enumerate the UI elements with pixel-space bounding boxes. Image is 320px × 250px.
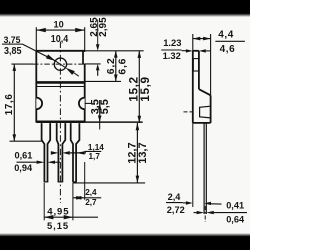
lead 2 left edge: [57, 123, 59, 182]
extension line: lead shoulder end, left: [10, 140, 42, 142]
lead 2 tip cap: [58, 181, 62, 183]
dimension 6,2/6,6: dim line: [115, 51, 117, 82]
svg-text:10,4: 10,4: [51, 34, 69, 44]
svg-text:1,14: 1,14: [88, 143, 104, 152]
side view: tab top edge: [193, 50, 199, 52]
front view: tab right edge notch segment: [82, 51, 84, 64]
svg-text:10: 10: [53, 19, 63, 29]
lead 3 left edge: [71, 123, 73, 182]
svg-text:1.23: 1.23: [163, 37, 181, 48]
svg-text:2,7: 2,7: [85, 198, 97, 207]
front view: body bottom thick edge: [36, 121, 84, 124]
extension line: tab top edge extended right: [85, 50, 144, 52]
side view: recess centerline dashes: [184, 111, 193, 113]
svg-text:0,61: 0,61: [15, 151, 33, 161]
top black bar: [0, 0, 250, 17]
extension lines below outer lead left edges: [43, 183, 45, 220]
side view: tab front edge: [198, 51, 200, 89]
dimension 4,4/4,6: dim line: [193, 38, 211, 40]
svg-text:2,4: 2,4: [85, 188, 97, 197]
arrowhead left at lead1 right edge, with tail: [48, 161, 56, 164]
side view: body bottom edge: [193, 122, 211, 124]
svg-text:4,4: 4,4: [218, 29, 234, 40]
arrowhead at hole lower-right: [66, 68, 75, 75]
svg-text:3,85: 3,85: [4, 45, 22, 56]
lead 3 right edge: [76, 123, 79, 182]
side view: body front edge: [210, 95, 212, 123]
svg-text:1,7: 1,7: [89, 152, 101, 161]
arrowhead up: [136, 123, 140, 130]
extension of tab back edge up: [192, 34, 194, 51]
lead 1 right edge: [48, 123, 51, 182]
leader line for 3,75/3,85 hole dia: [22, 44, 55, 61]
svg-text:4,6: 4,6: [220, 44, 236, 55]
side view: chamfer slope to body front: [199, 89, 211, 95]
fraction bar for 4,4/4,6: [215, 40, 245, 42]
arrowheads: [44, 215, 53, 219]
lead 3 tip cap: [73, 181, 76, 183]
side view: front recess trapezoid: [200, 106, 211, 118]
3,5/5,5 dim line tail below body bottom: [99, 122, 101, 130]
arrowhead right of 10/10,4: [75, 28, 85, 32]
svg-text:2,95: 2,95: [98, 17, 109, 37]
dimension 1,23/1,32: fraction bar: [161, 49, 181, 51]
dimension 2,65/2,95: upper leader+arrow (down at tab top): [97, 20, 99, 45]
arrowhead up: [13, 64, 17, 71]
side view: hole section rectangle: [193, 59, 199, 71]
extension line: notch center extended right: [85, 102, 91, 104]
extension line right above tab: [84, 27, 86, 52]
svg-text:0,94: 0,94: [14, 163, 33, 173]
dimension 2,4/2,7 (front): fraction bar / leader: [73, 197, 101, 199]
fraction bar 3,75/3,85: [2, 44, 22, 45]
extension line: body right edge extended down: [84, 162, 86, 200]
merged arrowheads: [73, 196, 82, 200]
svg-text:17,6: 17,6: [4, 93, 15, 115]
arrowhead at hole upper-left: [46, 54, 56, 61]
front view: tab/body right edge: [84, 64, 86, 123]
svg-text:2,72: 2,72: [167, 205, 185, 215]
vertical centerline (dash-dot): [59, 42, 61, 204]
right arrowhead pointing left at tab front, with tail: [199, 49, 206, 52]
left arrowhead pointing right at tab back: [186, 49, 193, 52]
svg-text:13,7: 13,7: [137, 142, 149, 163]
lead 1 left edge: shoulder, taper, narrow: [42, 123, 45, 182]
front view: left side notch semicircle: [36, 98, 42, 110]
leader tail lower-right: [74, 73, 79, 77]
arrowhead up: [114, 51, 118, 58]
svg-text:2,4: 2,4: [168, 192, 182, 202]
dimension 17,6: dim line: [13, 64, 15, 141]
lead 2 right edge: [62, 123, 65, 182]
right arrowhead pointing left at lead back face, with tail: [204, 202, 211, 205]
extension of tab back edge down: [192, 123, 194, 207]
dimension 1,14/1,7: arrows at lead2 narrow edges + leader over lead3: [51, 151, 59, 155]
dimension 15,2/15,9: dim line: [138, 51, 140, 123]
svg-text:15,9: 15,9: [138, 76, 152, 101]
arrowhead down: [98, 116, 102, 122]
arrowhead down: [13, 134, 17, 141]
svg-text:4,95: 4,95: [47, 207, 69, 218]
bottom black bar: [0, 233, 250, 250]
leader through hole: [55, 61, 65, 68]
leader and left arrowhead at tab back ext: [183, 202, 186, 204]
extension line: lead tip level: [73, 182, 145, 184]
fraction bar for 1,14/1,7: [85, 150, 102, 152]
front view: notch bottom step: [83, 63, 85, 65]
dimension 2,4/2,72 (side): fraction bar: [166, 202, 183, 204]
front view: body top line: [36, 86, 84, 88]
extension line left above tab: [35, 27, 37, 51]
right arrow pointing left at lead front + long bar to label: [206, 211, 214, 214]
arrowhead down: [138, 116, 142, 123]
dimension 0,41/0,64: left tail+arrow pointing right at lead back: [194, 212, 197, 214]
svg-text:6,2: 6,2: [106, 57, 117, 74]
dimension 10/10,4: dim line: [36, 29, 84, 31]
svg-text:5,15: 5,15: [47, 221, 69, 232]
dimension 12,7/13,7: dim line: [136, 123, 138, 183]
side view: lead front edge: [205, 123, 207, 214]
svg-text:5,5: 5,5: [99, 99, 111, 114]
extension line: notch bottom extended right: [85, 63, 101, 65]
mounting hole circle: [54, 58, 66, 70]
arrowhead down: [136, 176, 140, 183]
horizontal hole centerline (dash-dot), also 17,6 top extension: [11, 63, 33, 65]
arrowhead down: [114, 75, 118, 82]
svg-text:0,64: 0,64: [226, 214, 245, 224]
front view: tab/body left edge: [35, 51, 37, 123]
extension line: tab bottom extended right: [85, 80, 121, 82]
arrowhead up: [138, 51, 142, 58]
dimension 4,95/5,15: dim line: [44, 216, 98, 218]
front view: right side notch semicircle: [79, 98, 85, 110]
dimension 2,65/2,95: lower leader+arrow (up at notch line): [97, 70, 99, 76]
svg-text:0,41: 0,41: [226, 200, 244, 210]
extension of body front edge up: [210, 34, 212, 95]
front view: tab bottom thick edge: [36, 81, 84, 84]
arrowhead up: [98, 103, 102, 109]
lead 1 tip cap: [44, 181, 47, 183]
dimension 3,5/5,5: dim line: [99, 100, 101, 122]
side view: tab back edge: [192, 51, 194, 123]
side view: lead back edge: [203, 123, 205, 214]
extension line: body bottom extended right: [85, 121, 143, 123]
side view: lead centerline below: [204, 206, 206, 222]
svg-text:3,75: 3,75: [4, 35, 21, 45]
front view: tab top edge: [36, 50, 84, 52]
arrowhead left of 10/10,4: [36, 28, 46, 32]
svg-text:6,6: 6,6: [118, 58, 129, 75]
svg-text:1.32: 1.32: [163, 50, 181, 61]
dimension 0,61/0,94: leader bar: [17, 161, 37, 163]
arrowhead right at lead1 left edge: [37, 161, 45, 164]
